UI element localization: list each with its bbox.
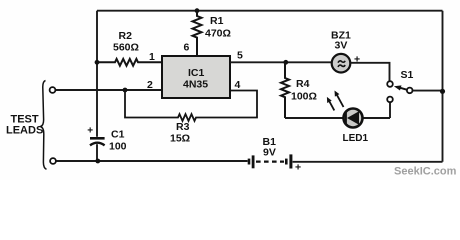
svg-text:R3: R3: [176, 121, 190, 133]
wire pin5 to buzzer: [230, 61, 332, 63]
svg-text:6: 6: [184, 42, 190, 54]
wire bottom rail left (terminal to battery): [56, 160, 248, 162]
svg-text:R2: R2: [119, 30, 133, 42]
wire LED to S1 lower contact: [389, 103, 391, 118]
svg-text:100: 100: [109, 141, 127, 153]
capacitor C1: [87, 125, 126, 152]
op-amp IC1 (optocoupler box): [162, 56, 230, 98]
lever with arrowhead: [400, 88, 407, 90]
node R1 top junction: [195, 8, 200, 13]
svg-text:+: +: [354, 54, 360, 66]
emission arrows: [337, 95, 343, 107]
node C1-bottom junction: [95, 159, 100, 164]
resistor R4: [281, 62, 317, 118]
svg-text:5: 5: [237, 50, 243, 62]
svg-text:9V: 9V: [263, 147, 276, 159]
wire S1 to right rail: [413, 90, 443, 92]
wire top rail: [97, 10, 443, 12]
svg-text:LEADS: LEADS: [6, 125, 43, 137]
resistor R3 with loop wire pin2 to pin4: [125, 90, 257, 145]
LED1: [327, 91, 369, 144]
terminal bottom test lead: [50, 158, 56, 164]
svg-text:LED1: LED1: [343, 133, 369, 144]
node R2 left junction: [95, 60, 100, 65]
svg-text:560Ω: 560Ω: [113, 42, 139, 54]
svg-text:4N35: 4N35: [183, 79, 208, 91]
svg-text:1: 1: [149, 51, 155, 63]
svg-text:C1: C1: [111, 129, 125, 141]
resistor R1: [193, 11, 231, 56]
svg-text:IC1: IC1: [188, 67, 205, 79]
wire buzzer to S1 top contact: [350, 63, 389, 81]
terminal top test lead: [50, 87, 56, 93]
resistor R2: [97, 30, 161, 66]
svg-text:15Ω: 15Ω: [170, 133, 190, 145]
wire LED row: [285, 117, 390, 119]
battery B1: [248, 136, 301, 174]
svg-text:4: 4: [235, 79, 241, 91]
node R4 top junction: [283, 60, 288, 65]
wire C1 bottom to bottom rail: [96, 144, 98, 161]
wire pin2 (top terminal to IC): [56, 89, 161, 91]
buzzer BZ1: [331, 30, 360, 73]
svg-text:3V: 3V: [335, 40, 348, 52]
svg-text:SeekIC.com: SeekIC.com: [394, 166, 457, 178]
svg-text:470Ω: 470Ω: [205, 28, 231, 40]
switch S1: [387, 69, 413, 102]
svg-text:S1: S1: [401, 69, 414, 81]
brace for test leads: [41, 81, 47, 170]
svg-text:R4: R4: [296, 78, 310, 90]
wire right rail: [442, 11, 444, 162]
node right-rail junction: [440, 89, 445, 94]
svg-text:+: +: [87, 125, 93, 136]
node pin2/R3 junction: [123, 88, 128, 93]
wire left vertical (top rail to C1): [96, 11, 98, 137]
wire bottom rail right (battery to right rail): [293, 161, 443, 163]
svg-text:+: +: [295, 162, 301, 174]
svg-text:R1: R1: [210, 15, 224, 27]
svg-text:2: 2: [147, 79, 153, 91]
svg-text:100Ω: 100Ω: [291, 91, 317, 103]
